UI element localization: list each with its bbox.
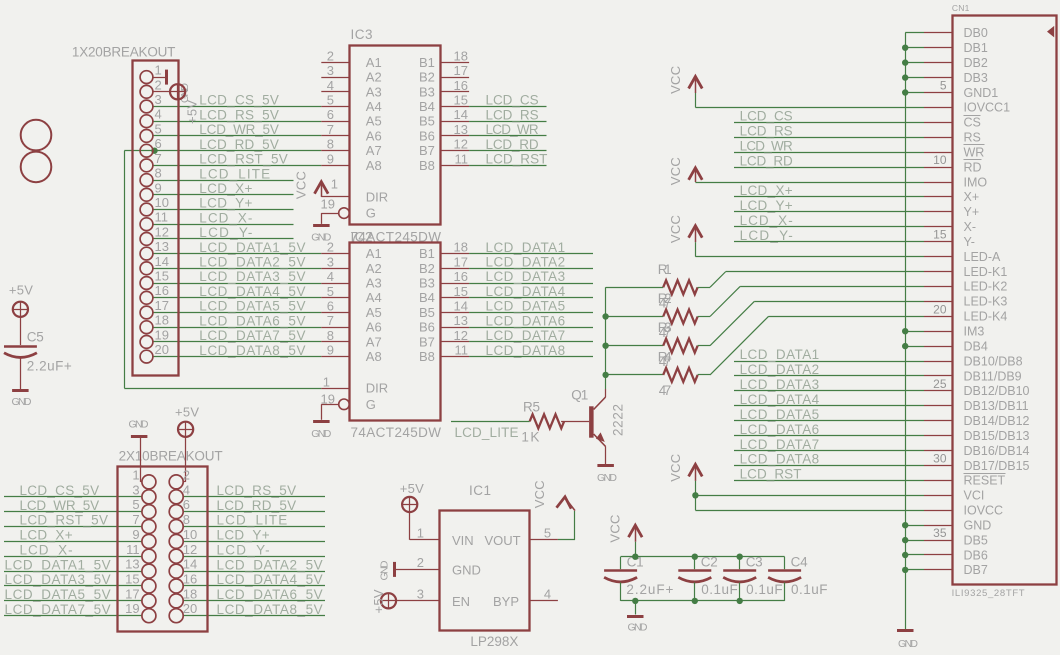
svg-text:0.1uF: 0.1uF (701, 582, 738, 597)
svg-text:LCD_DATA1: LCD_DATA1 (740, 347, 820, 362)
svg-text:18: 18 (183, 586, 197, 601)
svg-text:15: 15 (454, 284, 468, 299)
svg-text:0.1uF: 0.1uF (791, 582, 828, 597)
svg-text:GND: GND (628, 621, 648, 633)
svg-text:1: 1 (331, 176, 338, 191)
svg-text:6: 6 (327, 299, 334, 314)
svg-text:7: 7 (132, 512, 139, 527)
svg-text:GND: GND (452, 562, 481, 577)
svg-text:LCD_DATA5: LCD_DATA5 (740, 407, 820, 422)
svg-text:LCD_DATA4: LCD_DATA4 (740, 392, 820, 407)
svg-text:18: 18 (155, 313, 169, 328)
svg-text:LCD_DATA3: LCD_DATA3 (486, 269, 566, 284)
svg-text:LCD_X-: LCD_X- (740, 213, 793, 228)
svg-text:12: 12 (183, 542, 197, 557)
svg-text:A5: A5 (366, 305, 382, 320)
svg-text:VCI: VCI (964, 489, 985, 503)
svg-text:VOUT: VOUT (485, 533, 521, 548)
svg-text:B5: B5 (419, 305, 435, 320)
svg-text:LCD_DATA8: LCD_DATA8 (486, 343, 566, 358)
svg-text:3: 3 (327, 63, 334, 78)
svg-text:4: 4 (327, 269, 334, 284)
svg-text:R2: R2 (658, 291, 672, 306)
svg-text:A2: A2 (366, 70, 382, 85)
svg-text:IC3: IC3 (351, 27, 373, 42)
svg-text:1X20BREAKOUT: 1X20BREAKOUT (72, 44, 175, 59)
svg-text:2.2uF+: 2.2uF+ (27, 358, 72, 373)
svg-text:17: 17 (454, 254, 468, 269)
svg-text:B4: B4 (419, 290, 435, 305)
svg-text:DB3: DB3 (964, 71, 988, 85)
svg-text:B8: B8 (419, 158, 435, 173)
svg-text:20: 20 (933, 302, 947, 316)
svg-text:Y-: Y- (964, 235, 975, 249)
svg-text:R3: R3 (658, 320, 672, 335)
svg-text:G: G (366, 397, 376, 412)
svg-text:0.1uF: 0.1uF (746, 582, 783, 597)
svg-text:LCD_DATA7: LCD_DATA7 (740, 437, 820, 452)
svg-text:LCD_DATA2: LCD_DATA2 (740, 362, 820, 377)
svg-text:5: 5 (327, 93, 334, 108)
svg-text:18: 18 (454, 48, 468, 63)
svg-text:VCC: VCC (294, 171, 309, 199)
svg-text:A7: A7 (366, 143, 382, 158)
svg-text:13: 13 (454, 122, 468, 137)
svg-text:3: 3 (155, 92, 162, 107)
svg-text:LCD_RS: LCD_RS (740, 123, 793, 138)
svg-text:A6: A6 (366, 320, 382, 335)
svg-text:DB2: DB2 (964, 56, 988, 70)
svg-text:9: 9 (327, 343, 334, 358)
svg-text:LCD_RD_5V: LCD_RD_5V (199, 137, 279, 152)
svg-text:11: 11 (126, 542, 140, 557)
svg-text:LCD_DATA1_5V: LCD_DATA1_5V (199, 240, 305, 255)
svg-text:74ACT245DW: 74ACT245DW (351, 425, 442, 440)
svg-text:+5V: +5V (400, 481, 424, 496)
svg-text:LED-K1: LED-K1 (964, 265, 1008, 279)
svg-text:LCD_DATA3: LCD_DATA3 (740, 377, 820, 392)
svg-text:19: 19 (321, 391, 335, 406)
svg-text:20: 20 (155, 342, 169, 357)
svg-text:DB15/DB13: DB15/DB13 (964, 429, 1030, 443)
svg-text:B4: B4 (419, 99, 435, 114)
svg-text:B2: B2 (419, 70, 435, 85)
svg-text:CN1: CN1 (952, 3, 970, 13)
svg-text:7: 7 (327, 122, 334, 137)
svg-text:X-: X- (964, 220, 977, 234)
svg-text:GND: GND (597, 472, 617, 484)
svg-text:A8: A8 (366, 349, 382, 364)
svg-text:7: 7 (327, 313, 334, 328)
svg-text:LCD_Y-: LCD_Y- (217, 543, 270, 558)
svg-text:GND: GND (964, 519, 992, 533)
svg-text:6: 6 (327, 107, 334, 122)
svg-text:DIR: DIR (366, 381, 388, 396)
svg-text:LCD_RST: LCD_RST (740, 467, 802, 482)
svg-text:LCD_DATA6_5V: LCD_DATA6_5V (199, 313, 305, 328)
svg-text:8: 8 (183, 512, 190, 527)
svg-text:LCD_RD_5V: LCD_RD_5V (217, 498, 297, 513)
svg-text:LCD_WR_5V: LCD_WR_5V (20, 498, 100, 513)
svg-text:LCD_DATA5_5V: LCD_DATA5_5V (199, 299, 305, 314)
svg-text:VCC: VCC (532, 480, 547, 508)
svg-text:2: 2 (183, 467, 190, 482)
svg-text:IM3: IM3 (964, 325, 985, 339)
svg-text:2X10BREAKOUT: 2X10BREAKOUT (119, 449, 223, 464)
svg-text:RS: RS (964, 131, 981, 145)
svg-text:IOVCC1: IOVCC1 (964, 101, 1011, 115)
svg-text:Y+: Y+ (964, 205, 980, 219)
svg-text:16: 16 (454, 269, 468, 284)
svg-text:VCC: VCC (608, 515, 623, 543)
svg-text:A1: A1 (366, 55, 382, 70)
svg-text:LCD_DATA3_5V: LCD_DATA3_5V (199, 269, 305, 284)
svg-text:B7: B7 (419, 143, 435, 158)
svg-text:19: 19 (321, 197, 335, 212)
svg-text:9: 9 (132, 527, 139, 542)
svg-text:DB1: DB1 (964, 41, 988, 55)
svg-text:DB16/DB14: DB16/DB14 (964, 444, 1030, 458)
svg-text:6: 6 (155, 136, 162, 151)
svg-text:DB4: DB4 (964, 339, 988, 353)
svg-text:DB0: DB0 (964, 26, 988, 40)
svg-text:Q1: Q1 (571, 388, 588, 403)
svg-text:14: 14 (183, 557, 197, 572)
svg-text:R1: R1 (658, 262, 672, 277)
svg-text:VCC: VCC (668, 215, 683, 243)
svg-text:+5V: +5V (371, 589, 386, 613)
svg-text:LCD_RD: LCD_RD (740, 153, 793, 168)
svg-text:LP298X: LP298X (470, 634, 518, 649)
svg-text:+5V: +5V (9, 283, 33, 298)
svg-text:1: 1 (323, 374, 330, 389)
svg-text:2: 2 (327, 48, 334, 63)
svg-text:A1: A1 (366, 246, 382, 261)
svg-text:8: 8 (155, 166, 162, 181)
svg-text:14: 14 (155, 254, 169, 269)
svg-text:16: 16 (454, 78, 468, 93)
svg-text:A8: A8 (366, 158, 382, 173)
svg-text:G: G (366, 206, 376, 221)
svg-text:DB17/DB15: DB17/DB15 (964, 459, 1030, 473)
svg-text:VCC: VCC (668, 66, 683, 94)
svg-text:GND: GND (311, 428, 331, 440)
svg-text:12: 12 (454, 137, 468, 152)
svg-text:13: 13 (125, 557, 139, 572)
svg-text:GND1: GND1 (964, 86, 999, 100)
svg-text:LCD_CS_5V: LCD_CS_5V (199, 93, 279, 108)
svg-text:DB10/DB8: DB10/DB8 (964, 354, 1023, 368)
svg-text:VCC: VCC (668, 454, 683, 482)
svg-text:9: 9 (155, 180, 162, 195)
svg-text:17: 17 (155, 298, 169, 313)
svg-text:LCD_DATA5_5V: LCD_DATA5_5V (5, 587, 111, 602)
svg-text:CS: CS (964, 116, 981, 130)
svg-text:25: 25 (933, 377, 947, 391)
svg-text:LCD_DATA5: LCD_DATA5 (486, 299, 566, 314)
svg-text:LCD_DATA1: LCD_DATA1 (486, 240, 566, 255)
svg-text:+5V: +5V (185, 100, 200, 124)
svg-text:DB7: DB7 (964, 563, 988, 577)
svg-text:LCD_X+: LCD_X+ (740, 183, 793, 198)
svg-text:C3: C3 (746, 554, 763, 569)
svg-text:11: 11 (455, 343, 469, 358)
svg-text:LCD_WR: LCD_WR (486, 122, 539, 137)
svg-text:LCD_DATA6_5V: LCD_DATA6_5V (217, 587, 323, 602)
svg-text:LCD_RS: LCD_RS (486, 107, 539, 122)
svg-text:DB12/DB10: DB12/DB10 (964, 384, 1030, 398)
svg-text:A3: A3 (366, 276, 382, 291)
svg-text:LED-K4: LED-K4 (964, 310, 1008, 324)
svg-text:LCD_RST_5V: LCD_RST_5V (20, 513, 109, 528)
svg-text:17: 17 (125, 586, 139, 601)
svg-text:LCD_X+: LCD_X+ (199, 181, 252, 196)
svg-text:5: 5 (940, 79, 947, 93)
svg-text:11: 11 (155, 210, 169, 225)
svg-text:LCD_Y+: LCD_Y+ (740, 198, 793, 213)
svg-text:15: 15 (933, 228, 947, 242)
svg-text:LCD_X-: LCD_X- (199, 210, 252, 225)
svg-text:5: 5 (327, 284, 334, 299)
svg-text:R5: R5 (523, 399, 540, 414)
svg-text:1: 1 (155, 63, 162, 78)
svg-text:LCD_X+: LCD_X+ (20, 528, 73, 543)
svg-text:15: 15 (155, 269, 169, 284)
svg-text:B6: B6 (419, 128, 435, 143)
svg-text:7: 7 (155, 151, 162, 166)
svg-text:10: 10 (183, 527, 197, 542)
svg-text:5: 5 (132, 497, 139, 512)
svg-text:LCD_DATA3_5V: LCD_DATA3_5V (5, 572, 111, 587)
svg-text:A2: A2 (366, 261, 382, 276)
svg-text:12: 12 (155, 224, 169, 239)
svg-text:LCD_LITE: LCD_LITE (217, 513, 288, 528)
svg-text:LCD_CS: LCD_CS (486, 93, 539, 108)
svg-text:LCD_DATA4: LCD_DATA4 (486, 284, 566, 299)
svg-text:BYP: BYP (493, 594, 519, 609)
svg-text:8: 8 (327, 137, 334, 152)
svg-text:LCD_DATA6: LCD_DATA6 (486, 313, 566, 328)
svg-text:LCD_DATA8_5V: LCD_DATA8_5V (199, 343, 305, 358)
svg-text:B2: B2 (419, 261, 435, 276)
svg-text:LCD_LITE: LCD_LITE (199, 166, 270, 181)
svg-text:4: 4 (183, 482, 190, 497)
svg-text:30: 30 (933, 452, 947, 466)
svg-text:LED-A: LED-A (964, 250, 1001, 264)
svg-text:EN: EN (452, 594, 470, 609)
svg-text:DB11/DB9: DB11/DB9 (964, 369, 1022, 383)
svg-text:LCD_RS_5V: LCD_RS_5V (217, 483, 297, 498)
svg-text:1: 1 (417, 525, 424, 540)
svg-text:A6: A6 (366, 128, 382, 143)
svg-text:LCD_Y-: LCD_Y- (740, 228, 793, 243)
svg-text:1: 1 (132, 467, 139, 482)
svg-text:LCD_Y+: LCD_Y+ (199, 196, 252, 211)
svg-text:LCD_RST_5V: LCD_RST_5V (199, 152, 287, 167)
svg-text:IOVCC: IOVCC (964, 504, 1004, 518)
svg-text:6: 6 (183, 497, 190, 512)
svg-text:WR: WR (964, 146, 985, 160)
svg-text:5: 5 (544, 525, 551, 540)
svg-text:DIR: DIR (366, 189, 388, 204)
svg-text:4: 4 (327, 78, 334, 93)
svg-text:A7: A7 (366, 334, 382, 349)
svg-text:LCD_DATA7: LCD_DATA7 (486, 328, 566, 343)
svg-text:3: 3 (132, 482, 139, 497)
svg-text:DB6: DB6 (964, 548, 988, 562)
svg-text:19: 19 (125, 601, 139, 616)
svg-text:B7: B7 (419, 334, 435, 349)
svg-text:LCD_DATA2_5V: LCD_DATA2_5V (217, 557, 323, 572)
svg-text:LCD_DATA7_5V: LCD_DATA7_5V (199, 328, 305, 343)
svg-text:12: 12 (454, 328, 468, 343)
svg-text:X+: X+ (964, 190, 980, 204)
svg-text:B1: B1 (419, 55, 435, 70)
svg-text:A4: A4 (366, 99, 382, 114)
svg-text:LCD_DATA4_5V: LCD_DATA4_5V (199, 284, 305, 299)
svg-text:2.2uF+: 2.2uF+ (626, 582, 673, 597)
svg-text:35: 35 (933, 526, 947, 540)
svg-text:LCD_DATA6: LCD_DATA6 (740, 422, 820, 437)
svg-text:LCD_DATA2_5V: LCD_DATA2_5V (199, 255, 305, 270)
svg-text:B3: B3 (419, 84, 435, 99)
svg-text:LCD_LITE: LCD_LITE (455, 425, 519, 440)
svg-text:VIN: VIN (452, 533, 474, 548)
svg-text:LCD_DATA7_5V: LCD_DATA7_5V (5, 602, 111, 617)
svg-text:10: 10 (155, 195, 169, 210)
svg-text:GND: GND (12, 396, 32, 408)
svg-text:LCD_RD: LCD_RD (486, 137, 539, 152)
svg-text:GND: GND (898, 638, 918, 650)
svg-text:LCD_DATA4_5V: LCD_DATA4_5V (217, 572, 323, 587)
svg-text:LCD_CS_5V: LCD_CS_5V (20, 483, 100, 498)
svg-text:4: 4 (155, 107, 162, 122)
svg-text:A5: A5 (366, 114, 382, 129)
svg-text:47: 47 (659, 383, 672, 398)
svg-text:10: 10 (933, 153, 947, 167)
svg-text:16: 16 (155, 283, 169, 298)
svg-text:17: 17 (454, 63, 468, 78)
svg-text:13: 13 (155, 239, 169, 254)
svg-text:9: 9 (327, 151, 334, 166)
svg-text:13: 13 (454, 313, 468, 328)
svg-text:2: 2 (417, 555, 424, 570)
svg-text:3: 3 (417, 586, 424, 601)
svg-text:DB5: DB5 (964, 533, 988, 547)
svg-text:15: 15 (454, 93, 468, 108)
svg-text:8: 8 (327, 328, 334, 343)
svg-text:+5V: +5V (175, 405, 199, 420)
svg-text:RESET: RESET (964, 474, 1006, 488)
svg-text:C2: C2 (701, 554, 718, 569)
svg-text:1K: 1K (521, 429, 539, 444)
svg-text:2222: 2222 (610, 404, 625, 436)
svg-text:ILI9325_28TFT: ILI9325_28TFT (952, 588, 1025, 599)
svg-text:A4: A4 (366, 290, 382, 305)
svg-text:LED-K2: LED-K2 (964, 280, 1008, 294)
svg-text:LCD_DATA8: LCD_DATA8 (740, 452, 820, 467)
svg-text:B5: B5 (419, 114, 435, 129)
svg-text:11: 11 (455, 151, 469, 166)
svg-text:3: 3 (327, 254, 334, 269)
svg-text:LED-K3: LED-K3 (964, 295, 1008, 309)
svg-text:DB14/DB12: DB14/DB12 (964, 414, 1030, 428)
svg-text:LCD_X-: LCD_X- (20, 543, 73, 558)
svg-text:VCC: VCC (668, 157, 683, 185)
svg-text:RD: RD (964, 160, 982, 174)
svg-text:5: 5 (155, 121, 162, 136)
svg-text:LCD_Y-: LCD_Y- (199, 225, 252, 240)
svg-text:LCD_DATA8_5V: LCD_DATA8_5V (217, 602, 323, 617)
svg-text:19: 19 (155, 327, 169, 342)
svg-text:LCD_DATA1_5V: LCD_DATA1_5V (5, 557, 111, 572)
svg-text:15: 15 (125, 572, 139, 587)
svg-text:LCD_DATA2: LCD_DATA2 (486, 255, 566, 270)
svg-text:A3: A3 (366, 84, 382, 99)
svg-text:IC1: IC1 (469, 483, 491, 498)
svg-text:2: 2 (327, 240, 334, 255)
svg-text:C5: C5 (27, 329, 44, 344)
svg-text:20: 20 (183, 601, 197, 616)
svg-text:14: 14 (454, 107, 468, 122)
svg-text:GND: GND (129, 419, 149, 431)
svg-text:4: 4 (544, 586, 551, 601)
svg-text:LCD_WR_5V: LCD_WR_5V (199, 122, 279, 137)
svg-text:R4: R4 (658, 349, 672, 364)
svg-text:DB13/DB11: DB13/DB11 (964, 399, 1029, 413)
svg-text:2: 2 (155, 77, 162, 92)
svg-text:C4: C4 (791, 554, 808, 569)
svg-text:LCD_WR: LCD_WR (740, 138, 793, 153)
svg-text:B3: B3 (419, 276, 435, 291)
svg-text:B6: B6 (419, 320, 435, 335)
svg-text:LCD_CS: LCD_CS (740, 109, 793, 124)
svg-text:B1: B1 (419, 246, 435, 261)
svg-text:18: 18 (454, 240, 468, 255)
svg-text:LCD_Y+: LCD_Y+ (217, 528, 270, 543)
svg-text:14: 14 (454, 299, 468, 314)
svg-text:16: 16 (183, 572, 197, 587)
svg-text:IMO: IMO (964, 175, 988, 189)
svg-text:GND: GND (379, 560, 391, 580)
svg-text:LCD_RS_5V: LCD_RS_5V (199, 107, 279, 122)
svg-text:B8: B8 (419, 349, 435, 364)
svg-text:LCD_RST: LCD_RST (486, 152, 548, 167)
